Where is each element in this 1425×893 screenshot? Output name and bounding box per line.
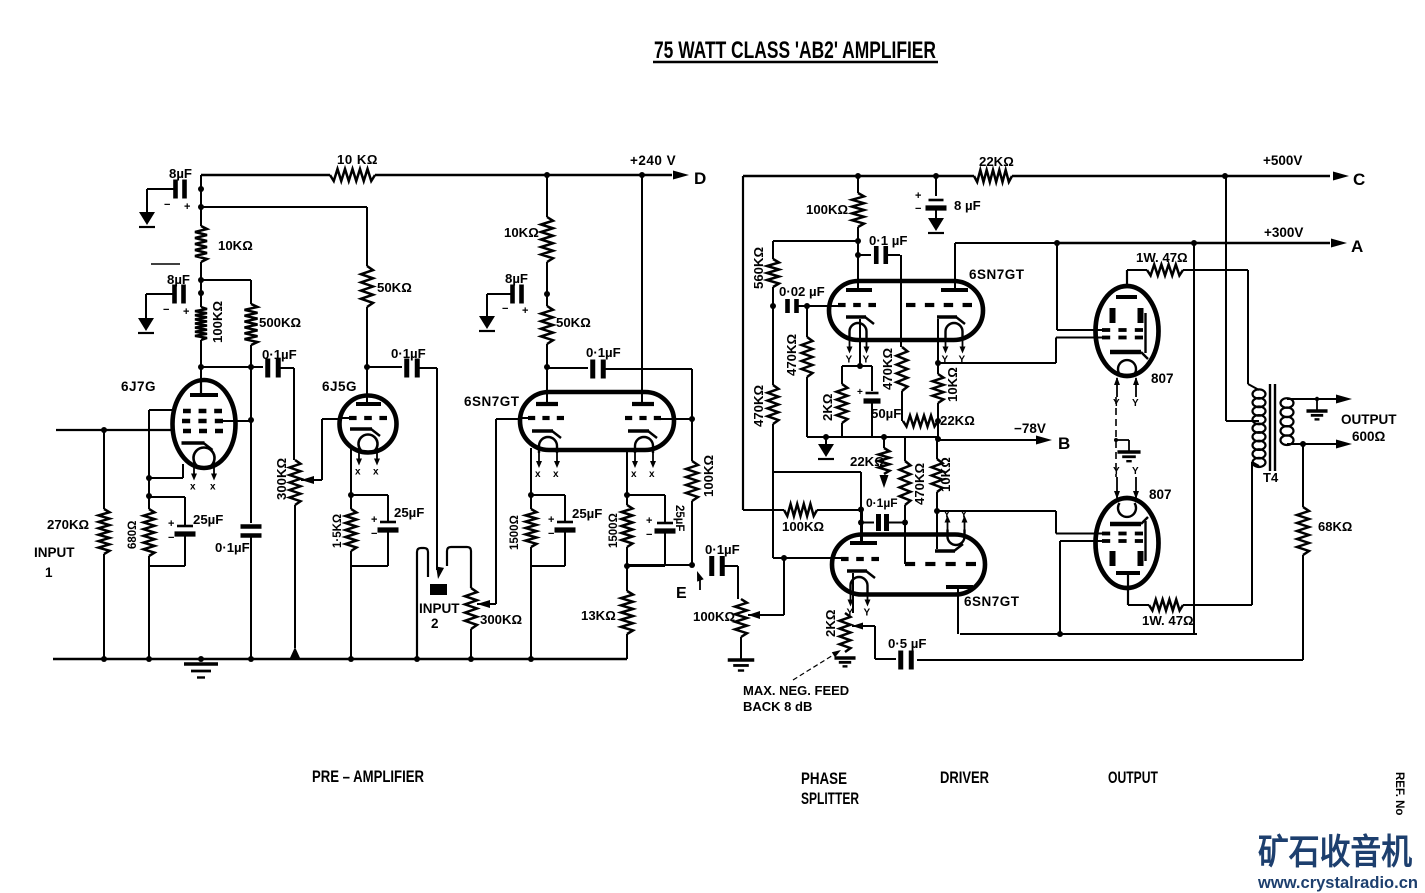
svg-text:x: x [210, 482, 216, 493]
ground below 8uF 1 [139, 212, 155, 225]
svg-text:+: + [371, 514, 377, 526]
6J5G grid dashes [349, 416, 357, 420]
terminal C arrow [1333, 172, 1349, 181]
wire 470K1 to bias line [806, 377, 808, 437]
tube 6J7G envelope [173, 380, 236, 468]
ground below 8uF 3 [479, 316, 495, 329]
wire feedback line [917, 659, 1303, 661]
wire phase cap to right grid riser [900, 255, 902, 347]
svg-text:0·1µF: 0·1µF [391, 346, 426, 361]
wire +300V screen drop [1193, 243, 1195, 634]
wire 470K2 to lower plate node [772, 424, 774, 472]
ground below 2K pot [834, 656, 855, 659]
wire upper 807 grid feed [1056, 243, 1058, 330]
wire cap3 to right grid [605, 368, 692, 370]
potentiometer 2K feedback [840, 613, 851, 652]
svg-text:T4: T4 [1263, 470, 1279, 485]
wire 100K to E node [691, 501, 693, 565]
6SN7 1 left cathode wire [530, 448, 532, 509]
wire +300V rail [1057, 242, 1330, 245]
resistor 470K 2 [768, 385, 779, 424]
capacitor 8uF decoupling 3 [510, 285, 515, 304]
wire 47ohm to primary top [1183, 269, 1248, 271]
wire branch to 500K [201, 279, 251, 281]
wire +500V top rail right [743, 175, 974, 178]
resistor 470K 3 [904, 437, 906, 461]
ps left grid dashes [838, 303, 846, 307]
svg-text:470KΩ: 470KΩ [880, 347, 895, 390]
junction dots on 6J7G divider [198, 186, 204, 192]
wire 100K ps down [857, 227, 859, 288]
svg-text:100KΩ: 100KΩ [701, 454, 716, 497]
svg-text:22KΩ: 22KΩ [850, 454, 885, 469]
wiper 300K pot 2 [477, 600, 490, 608]
svg-text:D: D [694, 169, 706, 188]
input 2 jack right shell [447, 547, 471, 588]
svg-text:100KΩ: 100KΩ [782, 519, 825, 534]
svg-text:Y: Y [864, 608, 871, 619]
svg-text:0·1µF: 0·1µF [215, 540, 250, 555]
wire cap2 down to input 2 switch [419, 367, 437, 369]
driver left cathode wire to 2K pot [852, 573, 854, 613]
svg-text:−: − [168, 532, 174, 544]
resistor 10K 6SN7 dropping [541, 217, 553, 262]
807 lower bottom bar [1116, 571, 1140, 575]
svg-text:2KΩ: 2KΩ [820, 393, 835, 421]
svg-text:807: 807 [1149, 487, 1172, 502]
svg-text:0·1µF: 0·1µF [866, 496, 898, 510]
6J5G cathode wire [350, 446, 352, 509]
svg-text:22KΩ: 22KΩ [940, 413, 975, 428]
807 lower cathode bar [1110, 522, 1141, 526]
6J7G top cap plate bar [200, 382, 202, 393]
807 lower heater pins top [1116, 477, 1118, 498]
tube 6SN7GT phase splitter envelope [829, 281, 983, 340]
svg-text:13KΩ: 13KΩ [581, 608, 616, 623]
terminal B arrow [1036, 436, 1052, 445]
resistor 100K 6J7G screen divider [195, 307, 207, 340]
svg-text:+500V: +500V [1263, 153, 1302, 168]
ps right plate wire to 300V line [954, 243, 956, 288]
tube 6SN7GT first envelope [520, 392, 674, 450]
svg-text:矿石收音机: 矿石收音机 [1258, 832, 1412, 872]
junction dots right rail [855, 173, 861, 179]
svg-text:0·1 µF: 0·1 µF [869, 233, 907, 248]
svg-text:−: − [163, 304, 169, 316]
wiper 100K pot [748, 611, 760, 619]
svg-text:+: + [168, 518, 174, 530]
svg-text:6SN7GT: 6SN7GT [969, 267, 1025, 282]
tube 807 upper envelope [1096, 286, 1159, 376]
svg-text:+: + [548, 514, 554, 526]
svg-text:x: x [535, 469, 541, 480]
driver left cathode and heater [847, 569, 867, 573]
wire to 50K 6J5G plate feed [201, 206, 367, 208]
driver left grid dashes [841, 557, 849, 561]
svg-text:2KΩ: 2KΩ [823, 609, 838, 637]
ps right grid dashes [906, 303, 915, 307]
capacitor 50uF ps cathode [871, 366, 873, 391]
svg-text:PRE – AMPLIFIER: PRE – AMPLIFIER [312, 768, 424, 786]
svg-text:100KΩ: 100KΩ [210, 300, 225, 343]
wire 560K to 470K 2 [772, 306, 774, 385]
capacitor 25uF 6SN7 right cathode [627, 494, 665, 496]
wire input down to rail [103, 430, 105, 509]
svg-text:−: − [371, 528, 377, 540]
resistor 22K horizontal bias [903, 416, 938, 427]
wire cap4 to 100K pot [724, 565, 738, 567]
svg-text:INPUT: INPUT [419, 601, 460, 616]
svg-text:10KΩ: 10KΩ [218, 238, 253, 253]
807 upper heater circle [1118, 360, 1136, 374]
svg-text:+: + [522, 305, 528, 317]
wire plate node to coupling cap 2 [367, 366, 402, 368]
svg-text:8µF: 8µF [169, 166, 192, 181]
svg-text:1: 1 [45, 565, 53, 580]
capacitor 0.1uF coupling 3 [590, 360, 595, 379]
driver right grid dashes [905, 562, 915, 566]
svg-text:2: 2 [431, 616, 439, 631]
6SN7 1 right cathode wire [626, 448, 628, 505]
capacitor 0.1uF coupling 2 [404, 359, 409, 378]
wire grid supply vertical 6J7G [200, 175, 202, 226]
svg-text:0·5 µF: 0·5 µF [888, 636, 926, 651]
wire E node line [627, 564, 692, 566]
driver right plate bar bottom [946, 585, 973, 589]
resistor 22K rail [974, 170, 1012, 182]
807 upper cathode bar [1110, 350, 1141, 354]
max neg feedback pointer [793, 652, 838, 680]
wire 560K to grid node [772, 287, 774, 306]
svg-text:BACK 8 dB: BACK 8 dB [743, 699, 812, 714]
807 lower heater circle [1118, 503, 1136, 517]
capacitor 0.1uF phase coupling [858, 254, 871, 256]
svg-text:−: − [502, 303, 508, 315]
807 upper heater pins [1116, 378, 1118, 397]
resistor 13K [621, 591, 633, 634]
807 upper top bar [1116, 295, 1137, 299]
807 upper grid dashes g2 [1102, 336, 1110, 340]
svg-text:300KΩ: 300KΩ [274, 457, 289, 500]
svg-text:+: + [915, 190, 921, 202]
svg-text:10KΩ: 10KΩ [938, 457, 953, 492]
ground bias line [825, 437, 827, 444]
potentiometer 300K 1 [290, 460, 301, 505]
capacitor 8uF decoupling 1 [173, 180, 178, 199]
capacitor 25uF cathode 6J5G [351, 494, 388, 496]
svg-text:−78V: −78V [1014, 421, 1046, 436]
wire 47ohm to primary bottom [1183, 604, 1252, 606]
6J7G cathode tap wire [182, 464, 184, 478]
807 upper top cap wire [1126, 270, 1128, 288]
capacitor 0.1uF 6J7G plate bypass [250, 420, 252, 523]
6SN7 1 right grid dashes [625, 416, 632, 420]
potentiometer 300K 2 [465, 588, 477, 629]
6J7G cathode and heater [182, 441, 205, 445]
terminal A arrow [1331, 239, 1347, 248]
resistor 680 cathode 6J7G [144, 509, 155, 556]
wire secondary bottom output [1287, 443, 1340, 445]
wire lower 807 grid feed [937, 510, 1056, 512]
svg-text:6J5G: 6J5G [322, 379, 357, 394]
svg-text:x: x [631, 469, 637, 480]
svg-text:50KΩ: 50KΩ [556, 315, 591, 330]
input 2 jack shield left [417, 548, 428, 659]
capacitor 0.02uF [785, 299, 790, 313]
potentiometer 100K E [735, 599, 747, 637]
svg-text:+240 V: +240 V [630, 153, 676, 168]
transformer primary entry wires [1248, 384, 1259, 390]
arrow at rail pot 1 [290, 647, 301, 659]
svg-text:DRIVER: DRIVER [940, 769, 989, 787]
svg-text:Y: Y [846, 355, 853, 366]
svg-text:560KΩ: 560KΩ [751, 246, 766, 289]
svg-text:x: x [373, 467, 379, 478]
807 lower grid dashes g2 [1102, 539, 1110, 543]
tube 807 lower envelope [1096, 498, 1159, 588]
wire lower driver cathode stem [936, 511, 938, 549]
6SN7 1 left grid dashes [528, 416, 535, 420]
wire rail drop to right plate [641, 175, 643, 402]
wire +500V drop to center tap [1225, 176, 1227, 421]
svg-text:6SN7GT: 6SN7GT [464, 394, 520, 409]
svg-text:470KΩ: 470KΩ [751, 384, 766, 427]
resistor 68K feedback [1302, 444, 1304, 507]
ps right cathode and heater [937, 315, 957, 319]
wire input 1 line [56, 429, 173, 431]
wire screen feed line lower [960, 633, 1197, 635]
wire cap1 to 300K pot [280, 367, 294, 369]
svg-text:10KΩ: 10KΩ [945, 367, 960, 402]
svg-text:E: E [676, 585, 687, 602]
svg-text:10 KΩ: 10 KΩ [337, 152, 378, 167]
svg-text:x: x [553, 469, 559, 480]
ps left cathode wire [859, 319, 861, 366]
wiper 2K pot [852, 623, 863, 630]
807 upper cathode ground chain [1115, 397, 1117, 477]
wire lower grid line [772, 472, 774, 558]
wire 50K to left plate [546, 344, 548, 402]
807 lower plate wire [1127, 575, 1129, 605]
svg-text:0·02 µF: 0·02 µF [779, 284, 825, 299]
ps cathode node line [842, 365, 872, 367]
ground below 8uF 2 [138, 318, 154, 331]
ps right plate bar [941, 288, 968, 292]
svg-text:+300V: +300V [1264, 225, 1303, 240]
svg-text:470KΩ: 470KΩ [912, 462, 927, 505]
resistor 470K 4 [897, 347, 908, 391]
wire 100K to coupling node [817, 509, 861, 511]
807 lower beam bracket [1144, 521, 1146, 561]
ps right cathode wire down [937, 319, 939, 363]
resistor 22K vertical to -78V [883, 437, 885, 448]
807 upper plate bars [1110, 308, 1116, 323]
resistor 50K 6SN7 left plate load [541, 306, 553, 344]
svg-text:C: C [1353, 170, 1365, 189]
transformer T4 core [1269, 384, 1271, 471]
svg-text:300KΩ: 300KΩ [480, 612, 523, 627]
wire 470K4 to 22K [901, 391, 903, 421]
capacitor 0.1uF lower coupling [861, 522, 874, 524]
svg-text:x: x [190, 482, 196, 493]
capacitor 0.1uF coupling 1 [265, 359, 270, 378]
resistor 500K plate load 6J7G [245, 304, 258, 345]
driver left plate wire [861, 510, 863, 543]
svg-text:−: − [548, 528, 554, 540]
driver right plate wire down [957, 589, 959, 634]
svg-text:OUTPUT: OUTPUT [1341, 412, 1397, 427]
wire 10K to 8uF node to 50K [546, 262, 548, 306]
svg-text:50KΩ: 50KΩ [377, 280, 412, 295]
ground 807 cathodes [1128, 440, 1130, 452]
svg-text:MAX. NEG. FEED: MAX. NEG. FEED [743, 683, 849, 698]
wire 500K to plate node [250, 345, 252, 420]
resistor 100K lower plate load [784, 504, 817, 516]
svg-text:470KΩ: 470KΩ [784, 333, 799, 376]
svg-text:50µF: 50µF [871, 406, 901, 421]
6SN7 1 left cathode and heater [532, 429, 553, 433]
ground below 8uF 4 [928, 218, 944, 231]
svg-text:+: + [183, 306, 189, 318]
wire -78V bias line [807, 436, 884, 438]
wiper 300K pot 1 [301, 476, 314, 484]
svg-text:1500Ω: 1500Ω [608, 513, 620, 548]
svg-text:1W. 47Ω: 1W. 47Ω [1142, 613, 1194, 628]
resistor 560K [773, 240, 858, 242]
wire grid node to coupling cap 1 [201, 366, 263, 368]
resistor 100K 6SN7 right grid leak [686, 461, 698, 501]
resistor 10K ps cathode [933, 374, 944, 403]
svg-text:www.crystalradio.cn: www.crystalradio.cn [1257, 874, 1418, 892]
capacitor 8uF phase [935, 176, 937, 196]
svg-text:1W. 47Ω: 1W. 47Ω [1136, 250, 1188, 265]
resistor 270K input [99, 509, 110, 554]
svg-text:x: x [355, 467, 361, 478]
svg-text:A: A [1351, 237, 1363, 256]
svg-text:100KΩ: 100KΩ [693, 609, 736, 624]
driver right cathode and heater inverted [935, 549, 955, 553]
svg-text:Y: Y [1132, 466, 1139, 477]
wire B+ left rail down to 100K feedback [742, 176, 744, 510]
6J5G cathode and heater [350, 427, 372, 431]
6SN7 1 left plate bar [536, 402, 558, 406]
driver left plate bar [850, 541, 877, 545]
svg-text:68KΩ: 68KΩ [1318, 519, 1352, 534]
svg-text:25µF: 25µF [572, 506, 602, 521]
807 lower plate bars [1110, 551, 1116, 566]
resistor 100K phase splitter plate [857, 176, 859, 193]
resistor 10K top rail [330, 169, 375, 181]
resistor 10K 6J7G divider [195, 226, 207, 262]
svg-text:+: + [857, 387, 863, 398]
resistor 47ohm upper [1127, 269, 1147, 271]
wire rail to 10K v [546, 175, 548, 217]
svg-text:+: + [646, 515, 652, 527]
svg-text:25µF: 25µF [673, 505, 685, 531]
svg-text:680Ω: 680Ω [127, 521, 139, 549]
wire lower 807 screen riser [1059, 541, 1061, 634]
wire 50K to 6J5G plate [366, 307, 368, 367]
6SN7 1 right grid lead [661, 418, 692, 420]
svg-text:8µF: 8µF [167, 272, 190, 287]
svg-text:1·5KΩ: 1·5KΩ [332, 514, 344, 548]
807 lower grid dashes g1 [1102, 532, 1110, 536]
svg-text:25µF: 25µF [394, 505, 424, 520]
input 2 jack contact pad [430, 584, 447, 595]
svg-text:500KΩ: 500KΩ [259, 315, 302, 330]
svg-text:+: + [184, 201, 190, 213]
6J7G screen lead right [223, 420, 251, 422]
capacitor 25uF 6SN7 left cathode [531, 494, 565, 496]
svg-text:0·1µF: 0·1µF [262, 347, 297, 362]
wire 13K to rail corner [626, 634, 628, 659]
svg-text:270KΩ: 270KΩ [47, 517, 90, 532]
svg-text:Y: Y [1113, 466, 1120, 477]
wire cathode to 807 beam plate line [938, 362, 1056, 364]
svg-text:600Ω: 600Ω [1352, 429, 1386, 444]
resistor 47ohm lower [1149, 600, 1183, 611]
svg-text:100KΩ: 100KΩ [806, 202, 849, 217]
svg-text:INPUT: INPUT [34, 545, 75, 560]
wire lower driver grid riser [904, 523, 906, 565]
svg-text:8µF: 8µF [505, 271, 528, 286]
svg-text:Y: Y [961, 510, 968, 521]
svg-text:−: − [164, 199, 170, 211]
wire left plate to coupling cap 3 [547, 367, 588, 369]
ground below 100K pot [728, 658, 755, 661]
resistor 2K ps cathode [841, 366, 843, 384]
resistor 50K 6J5G plate load [361, 266, 373, 307]
svg-text:PHASE: PHASE [801, 770, 847, 788]
svg-text:Y: Y [1132, 398, 1139, 409]
807 upper grid dashes g1 [1102, 328, 1110, 332]
stray mark [151, 263, 180, 265]
svg-text:−: − [915, 203, 921, 215]
transformer T4 primary winding [1253, 389, 1266, 467]
svg-text:Y: Y [863, 355, 870, 366]
tube 6J5G envelope [340, 396, 397, 453]
svg-text:75 WATT CLASS 'AB2' AMPLIFIER: 75 WATT CLASS 'AB2' AMPLIFIER [654, 37, 936, 64]
ground symbol on rail [184, 662, 218, 665]
svg-text:OUTPUT: OUTPUT [1108, 769, 1158, 787]
capacitor 0.1uF coupling 4 [709, 556, 714, 576]
wire secondary top output [1287, 398, 1340, 400]
wire lower plate node vertical [860, 472, 862, 543]
transformer T4 secondary winding [1281, 398, 1294, 445]
svg-text:0·1µF: 0·1µF [586, 345, 621, 360]
svg-text:8 µF: 8 µF [954, 198, 981, 213]
capacitor 8uF decoupling 2 [172, 285, 177, 304]
svg-text:B: B [1058, 434, 1070, 453]
svg-text:6SN7GT: 6SN7GT [964, 594, 1020, 609]
6J7G grid dash rows [183, 409, 191, 414]
resistor 470K 1 [806, 306, 808, 337]
svg-text:1500Ω: 1500Ω [509, 515, 521, 550]
ground output top [1316, 399, 1318, 411]
resistor 1.5K cathode 6J5G [346, 509, 357, 551]
6SN7 1 right plate bar [632, 402, 654, 406]
svg-text:SPLITTER: SPLITTER [801, 790, 859, 808]
svg-text:10KΩ: 10KΩ [504, 225, 539, 240]
6J5G plate bar [356, 402, 381, 406]
E arrow [699, 577, 701, 590]
svg-text:6J7G: 6J7G [121, 379, 156, 394]
rail junction dots [101, 656, 107, 662]
svg-text:25µF: 25µF [193, 512, 223, 527]
wire +240V top rail left [201, 174, 330, 177]
svg-text:0·1µF: 0·1µF [705, 542, 740, 557]
svg-text:−: − [646, 529, 652, 541]
